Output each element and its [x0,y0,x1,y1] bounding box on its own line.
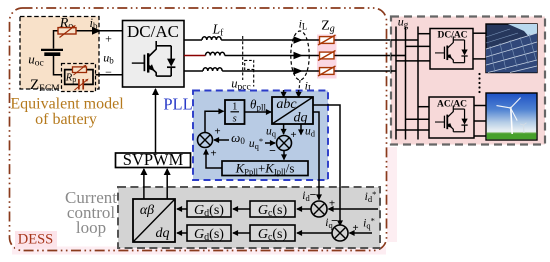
grid AC/AC converter box [429,97,474,138]
resistor Ro [58,16,76,38]
stub DC/AC to PV 1 [473,32,486,34]
svg-text:of battery: of battery [35,111,97,128]
wire battery top [54,31,123,49]
svg-text:loop: loop [76,218,106,237]
wire iq* into J4 [350,232,373,234]
svg-text:+: + [210,148,216,160]
svg-text:DESS: DESS [18,232,53,248]
phase wire a [184,39,202,41]
wire Gd2 to abdq [177,232,187,234]
integrator 1/s [225,100,245,125]
pink band along right border [387,147,397,242]
svg-text:s: s [233,114,237,125]
svg-text:−: − [269,144,276,158]
battery uoc [28,50,63,69]
stub bus3 to AC/AC [418,106,429,108]
phase wire a inside grid [391,39,418,41]
stub DC/AC to PV 2 [473,58,486,60]
RC inner dashed box [62,64,96,92]
bus 2 [405,27,407,140]
stub AC/AC to wind 2 [474,120,486,122]
iL measurement ellipse [291,31,309,80]
svg-text:dq: dq [294,111,308,126]
svg-text:DC/AC: DC/AC [437,31,467,41]
stub AC/AC to wind 1 [474,105,486,107]
resistor Rp [65,65,87,84]
svg-text:−: − [310,188,317,202]
label equivalent model of battery [10,96,124,129]
svg-text:αβ: αβ [140,203,154,218]
stub bus2 to DC/AC [406,45,431,47]
impedance Zg phase c [318,66,336,76]
arrow uq down [283,124,285,134]
wire theta to abc/dq [245,111,272,113]
wire battery bottom [54,56,65,75]
block Gc row1 [250,201,295,219]
RC parallel loop [65,70,93,85]
wire SVPWM to DC/AC [155,89,157,153]
pink highlight band along bottom border [12,247,386,255]
grid DC/AC converter box [430,29,473,70]
svg-text:Gd(s): Gd(s) [194,203,224,219]
wire J4 to Gc2 [297,232,333,234]
wire Gc2 to Gd2 [233,232,250,234]
inductor Lf phase c [203,68,222,71]
inductor Lf phase b [206,52,225,55]
stub AC/AC to wind 3 [474,135,486,137]
svg-text:AC/AC: AC/AC [437,100,467,110]
wire J2 to PI [283,151,285,160]
stub bus1 to AC/AC [396,129,429,131]
wire PI to J1 [206,150,222,169]
block Gd row1 [187,201,231,219]
block Gd row2 [187,225,231,243]
phase wire b (red segment) [184,55,206,57]
svg-text:KPpll+KIpll/s: KPpll+KIpll/s [235,161,295,177]
svg-text:−: − [331,214,338,228]
SVPWM block [116,150,191,169]
svg-text:+: + [290,129,296,141]
block Gc row2 [250,225,295,243]
u_pcc probe dashed line [242,36,244,80]
abc/dq transform block [272,97,313,126]
wire omega0 to J1 [214,139,229,141]
wire J1 to integrator [205,111,224,132]
svg-text:+: + [352,222,358,234]
junction J3 id sum [311,201,327,217]
wire uq* to J2 [265,142,275,144]
iL arrowheads on phases [294,36,303,44]
phase wire c inside grid [391,70,396,72]
grid DC/AC IGBT [435,36,468,62]
arrow ab/dq to SVPWM 2 [166,169,168,199]
inductor Lf phase a [202,37,221,40]
svg-text:Gc(s): Gc(s) [258,227,288,243]
label current control loop [65,188,117,237]
svg-text:+: + [105,32,112,46]
grid AC/AC IGBT [435,105,468,131]
svg-text:DC/AC: DC/AC [127,22,179,41]
arrow ud down [300,124,302,135]
u_pcc drop to PLL [253,69,255,86]
svg-text:+: + [214,126,220,138]
svg-text:Gc(s): Gc(s) [258,203,288,219]
PI block K [222,161,308,177]
phase wire b inside grid [391,55,406,57]
solar panel image [486,24,537,73]
dotted separator [478,73,480,93]
DESS outer dash-dot border [10,8,387,251]
Zg pink band [317,35,337,79]
junction J4 iq sum [332,225,348,241]
bus 1 [395,27,397,140]
wire Gc1 to Gd1 [233,208,250,210]
IGBT and diode of DC/AC [132,41,176,76]
bus 3 [417,27,419,140]
DESS label highlight [15,231,57,249]
wire RC to DC/AC [93,74,123,76]
phase wire c [184,70,203,72]
battery model box [20,17,99,90]
PLL box [193,91,328,181]
svg-text:−: − [105,65,112,79]
junction J1 omega sum [198,133,213,148]
svg-text:Gd(s): Gd(s) [194,227,224,243]
current ib arrow [90,16,101,35]
grid box [391,17,545,145]
svg-text:SVPWM: SVPWM [123,150,184,169]
wind turbine image [486,93,537,140]
u_pcc probe dashed bracket [245,60,254,69]
svg-text:PLL: PLL [163,95,192,114]
svg-text:+: + [329,198,335,210]
wire J3 to Gc1 [297,208,312,210]
stub bus1 to DC/AC [396,60,430,62]
arrow iL into abc/dq [298,90,300,97]
wire Gd1 to abdq [177,208,187,210]
stub bus3 to DC/AC [418,33,430,35]
wire id* into J3 [329,208,379,210]
current control loop box [118,187,380,248]
DC/AC converter [123,21,185,88]
capacitor Cp [75,79,89,90]
impedance Zg phase a [318,35,336,45]
alphabeta/dq transform block [133,199,175,242]
arrow upcc into abc/dq [283,90,285,97]
junction J2 uq sum [277,136,292,151]
arrow ab/dq to SVPWM 1 [143,169,145,199]
svg-text:dq: dq [156,226,170,241]
iL dashed drop [299,80,300,90]
tap wire id from abc/dq [313,112,319,200]
svg-text:Equivalent model: Equivalent model [10,96,124,113]
impedance Zg phase b [318,51,336,61]
svg-text:1: 1 [232,102,237,113]
stub bus2 to AC/AC [406,118,430,120]
tap wire iq from abc/dq [313,105,340,226]
